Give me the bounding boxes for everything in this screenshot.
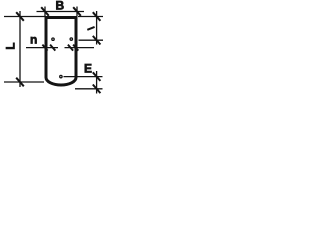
dimension line n right (65, 47, 95, 49)
tick L bottom (16, 78, 24, 87)
svg-text:B: B (56, 0, 65, 12)
tick L top (16, 12, 24, 21)
extension line l top (78, 16, 103, 18)
extension line E bottom (75, 88, 103, 90)
part outline (U-shaped slot body) (46, 18, 76, 86)
tick E top (93, 72, 101, 81)
tick B left (41, 7, 49, 16)
node: wire point bottom (60, 75, 62, 77)
svg-text:n: n (30, 33, 37, 47)
svg-text:E: E (84, 61, 92, 75)
dimension line B (37, 11, 85, 13)
dimension line E (96, 71, 98, 94)
extension line l bottom (79, 39, 104, 41)
tick l bottom (93, 36, 101, 45)
extension line L bottom (4, 81, 44, 83)
tick n left outer (42, 45, 47, 51)
node: wire point left (52, 38, 54, 40)
label l (rotated) (87, 27, 94, 30)
tick l top (93, 12, 101, 21)
tick n left inner (50, 45, 55, 51)
dimension line L (19, 11, 21, 87)
dimension line n left (26, 47, 58, 49)
dimension line l (96, 11, 98, 45)
svg-text:L: L (3, 42, 17, 49)
tick n right inner (68, 45, 73, 51)
tick E bottom (93, 85, 101, 94)
extension line L top (4, 16, 45, 18)
tick n right outer (73, 45, 78, 51)
extension line B left (44, 7, 46, 17)
node: wire point right (70, 38, 72, 40)
extension line E top (64, 76, 103, 78)
tick B right (73, 7, 81, 16)
wire (4, 7, 103, 94)
extension line B right (76, 7, 78, 17)
